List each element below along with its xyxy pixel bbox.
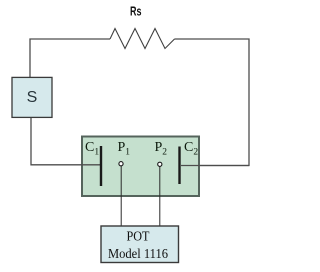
svg-text:POT: POT	[127, 230, 150, 245]
svg-text:Rs: Rs	[130, 3, 142, 18]
svg-text:S: S	[27, 89, 38, 106]
svg-text:Model 1116: Model 1116	[108, 247, 168, 262]
